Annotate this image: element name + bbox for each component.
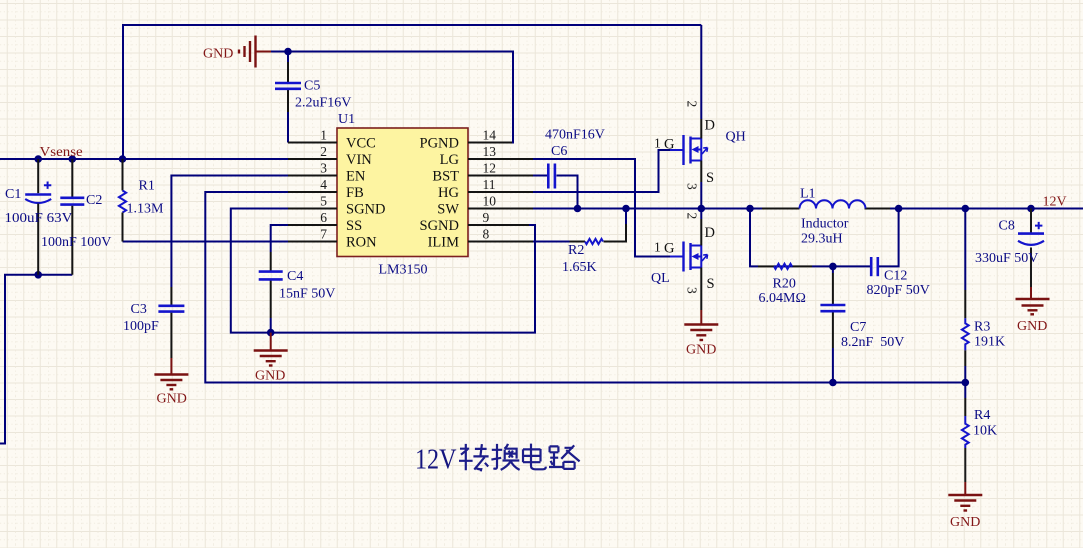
svg-text:191K: 191K	[974, 335, 1005, 350]
svg-text:8: 8	[483, 227, 490, 242]
svg-text:G: G	[664, 137, 675, 153]
wire BST pin12 to C6	[532, 175, 547, 177]
svg-text:C7: C7	[850, 320, 866, 335]
node C4 bottom ground junction	[267, 329, 275, 337]
node Vsense junction R1	[119, 155, 127, 163]
capacitor C4	[259, 269, 336, 302]
svg-text:12V: 12V	[415, 445, 457, 476]
svg-text:PGND: PGND	[420, 136, 459, 152]
resistor R3	[962, 318, 1005, 350]
svg-text:GND: GND	[157, 392, 187, 407]
svg-text:GND: GND	[1017, 319, 1047, 334]
svg-text:12: 12	[483, 161, 497, 176]
node R3 R4 divider junction	[962, 379, 970, 387]
capacitor C8 polarized	[975, 219, 1044, 267]
wire R20 to C7 C12 junction	[793, 265, 812, 267]
svg-text:U1: U1	[338, 112, 355, 127]
svg-text:7: 7	[320, 227, 327, 242]
svg-text:330uF 50V: 330uF 50V	[975, 251, 1038, 266]
svg-text:14: 14	[483, 128, 497, 143]
node SW snubber junction	[746, 205, 754, 213]
wire C7 top pin	[832, 266, 834, 273]
capacitor C7	[820, 305, 904, 350]
wire C6 to SW node	[557, 176, 578, 209]
svg-text:9: 9	[483, 210, 490, 225]
svg-text:C3: C3	[131, 302, 147, 317]
U1 right pin names	[420, 136, 460, 251]
svg-text:15nF 50V: 15nF 50V	[279, 287, 335, 302]
svg-text:GND: GND	[950, 515, 980, 530]
node SW R2 junction	[622, 205, 630, 213]
svg-text:100pF: 100pF	[123, 319, 159, 334]
svg-text:SW: SW	[437, 202, 459, 218]
ground top horizontal GND near C5	[239, 36, 271, 68]
svg-text:C4: C4	[287, 269, 303, 284]
wire C12 right to SW rail	[878, 209, 899, 267]
svg-text:C1: C1	[5, 187, 21, 202]
svg-text:VCC: VCC	[346, 136, 376, 152]
title hanzi dian	[523, 444, 546, 470]
node C1 bottom junction	[34, 271, 42, 279]
wire R3 top pin from SW rail	[964, 209, 966, 291]
wire HG pin11 to QH gate	[532, 150, 670, 192]
svg-text:1: 1	[654, 136, 661, 151]
capacitor C3	[123, 302, 184, 358]
svg-text:C8: C8	[999, 219, 1015, 234]
wire C5 bottom to VCC pin 1	[287, 90, 289, 113]
transistor QL	[651, 213, 715, 311]
inductor L1	[800, 187, 866, 247]
wire R4 top pin	[964, 383, 966, 399]
svg-text:C2: C2	[86, 193, 102, 208]
svg-text:10: 10	[483, 194, 497, 209]
svg-text:R1: R1	[139, 179, 155, 194]
svg-text:11: 11	[483, 177, 496, 192]
svg-text:QL: QL	[651, 271, 670, 286]
wire C8 top pin	[1030, 209, 1032, 233]
wire QL drain from SW node	[700, 209, 702, 220]
svg-text:BST: BST	[432, 169, 459, 185]
svg-text:100nF 100V: 100nF 100V	[41, 235, 111, 250]
wire Vsense net to VIN pin 2	[0, 158, 289, 160]
svg-text:29.3uH: 29.3uH	[801, 232, 843, 247]
svg-text:RON: RON	[346, 235, 377, 251]
node C8 12V junction	[1027, 205, 1035, 213]
title hanzi zhuan	[459, 444, 489, 471]
wire R4 bottom to ground	[964, 448, 966, 482]
svg-text:1: 1	[654, 240, 661, 255]
svg-text:2: 2	[685, 101, 700, 108]
wire ILIM pin8 to R2	[532, 241, 570, 243]
svg-text:VIN: VIN	[346, 152, 372, 168]
resistor R4	[962, 408, 997, 448]
wire C4 bottom to ground junction	[270, 281, 272, 319]
node SW QH QL junction	[698, 205, 706, 213]
svg-text:D: D	[705, 225, 715, 241]
capacitor C2	[41, 159, 111, 275]
svg-text:470nF16V: 470nF16V	[545, 128, 605, 143]
svg-text:2: 2	[685, 213, 700, 220]
svg-text:3: 3	[320, 161, 327, 176]
svg-text:ILIM: ILIM	[428, 235, 460, 251]
wire R3 bottom to divider junction	[964, 350, 966, 366]
wire LG pin13 to QL gate	[532, 159, 670, 257]
U1 left pin numbers	[320, 128, 327, 242]
capacitor C6	[545, 128, 605, 189]
node C5 GND junction	[284, 48, 292, 56]
wire PGND pin14 to GND net	[270, 52, 513, 143]
svg-text:100uF 63V: 100uF 63V	[5, 211, 73, 226]
title hanzi huan	[491, 444, 519, 470]
svg-text:2: 2	[320, 144, 327, 159]
wire C7 bottom pin to FB run	[832, 312, 834, 348]
svg-text:HG: HG	[438, 185, 459, 201]
svg-text:D: D	[705, 118, 715, 134]
svg-text:5: 5	[320, 194, 327, 209]
svg-text:2.2uF16V: 2.2uF16V	[295, 96, 351, 111]
ground below R4	[948, 482, 982, 511]
svg-text:Vsense: Vsense	[40, 145, 83, 160]
wire FB pin4 feedback run to divider	[205, 192, 965, 383]
op-amp U1 LM3150 body	[337, 128, 468, 257]
svg-text:FB: FB	[346, 185, 364, 201]
svg-text:LG: LG	[440, 152, 460, 168]
capacitor C1 polarized	[5, 159, 73, 275]
ground below C3	[154, 358, 188, 389]
svg-text:6.04MΩ: 6.04MΩ	[759, 291, 806, 306]
wire SS pin6 to C4	[271, 225, 289, 252]
svg-text:8.2nF 50V: 8.2nF 50V	[841, 335, 904, 350]
wire SW pin10 rail left part	[532, 208, 762, 210]
wire QH drain from top bus	[700, 25, 702, 119]
resistor R1	[119, 159, 164, 242]
wire RON pin7 to R1 bottom	[123, 241, 290, 243]
node C7 bottom junction	[829, 379, 837, 387]
svg-text:R20: R20	[773, 277, 796, 292]
node SW C6 junction	[574, 205, 582, 213]
svg-text:QH: QH	[726, 130, 746, 145]
svg-text:GND: GND	[255, 369, 285, 384]
svg-text:R3: R3	[974, 320, 990, 335]
svg-text:L1: L1	[800, 187, 816, 202]
svg-text:12V: 12V	[1043, 195, 1067, 210]
transistor QH	[654, 101, 746, 191]
wire C5 top to GND net	[287, 52, 289, 63]
wire C8 bottom to ground	[1030, 248, 1032, 288]
svg-text:G: G	[664, 241, 675, 257]
ground below QL source	[684, 310, 718, 340]
svg-text:GND: GND	[686, 343, 716, 358]
node Vsense junction C2	[69, 155, 77, 163]
resistor R20	[759, 264, 806, 306]
wire vertical input riser x=123	[122, 24, 124, 159]
wire bottom-left return	[0, 275, 72, 444]
svg-text:SGND: SGND	[420, 218, 459, 234]
node R20 C12 C7 junction	[829, 263, 837, 271]
U1 right pin stubs 14-8	[468, 143, 533, 242]
svg-text:SS: SS	[346, 218, 362, 234]
ground below C8	[1016, 287, 1050, 314]
svg-text:1: 1	[320, 128, 327, 143]
svg-text:C6: C6	[551, 144, 567, 159]
resistor R2	[562, 239, 603, 275]
svg-text:10K: 10K	[973, 424, 997, 439]
node Vsense junction C1	[34, 155, 42, 163]
capacitor C12	[867, 257, 930, 298]
svg-text:R2: R2	[568, 243, 584, 258]
wire QH source to SW node	[700, 182, 702, 209]
node L1 C12 junction	[895, 205, 903, 213]
svg-text:GND: GND	[203, 47, 233, 62]
U1 right pin numbers	[483, 128, 497, 242]
svg-text:S: S	[706, 170, 714, 186]
ground below C4	[254, 333, 288, 366]
svg-text:SGND: SGND	[346, 202, 385, 218]
svg-text:3: 3	[685, 287, 700, 294]
wire R2 to SW node	[604, 224, 627, 242]
svg-text:EN: EN	[346, 169, 366, 185]
U1 left pin stubs 1-7	[288, 143, 337, 242]
U1 left pin names	[346, 136, 385, 251]
svg-text:Inductor: Inductor	[801, 217, 849, 232]
svg-text:6: 6	[320, 210, 327, 225]
svg-text:R4: R4	[974, 408, 990, 423]
svg-text:S: S	[707, 276, 715, 292]
svg-text:1.65K: 1.65K	[562, 260, 597, 275]
svg-text:820pF 50V: 820pF 50V	[867, 283, 930, 298]
svg-text:LM3150: LM3150	[379, 263, 428, 278]
wire snubber branch down from SW	[750, 209, 793, 267]
svg-text:4: 4	[320, 177, 327, 192]
wire top bus from input to QH drain	[123, 24, 701, 26]
capacitor C5	[275, 79, 351, 111]
wire SW rail right part to 12V edge	[865, 208, 891, 210]
title hanzi lu	[549, 445, 580, 469]
svg-text:C5: C5	[304, 79, 320, 94]
svg-text:13: 13	[483, 144, 497, 159]
svg-text:1.13M: 1.13M	[127, 202, 165, 217]
wire EN pin3 to C3	[171, 176, 289, 288]
svg-text:3: 3	[685, 183, 700, 190]
node R3 top junction	[962, 205, 970, 213]
wire SGND pin5 loop to ground point	[231, 209, 535, 333]
svg-text:C12: C12	[884, 269, 907, 284]
